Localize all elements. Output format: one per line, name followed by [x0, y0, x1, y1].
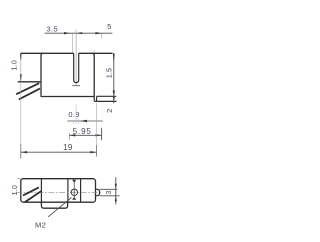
down arrow tip at y=101.4 — [113, 97, 115, 102]
1.0 dim lower arrow wedge — [20, 74, 22, 81]
svg-text:M2: M2 — [35, 221, 46, 230]
svg-text:0.9: 0.9 — [68, 110, 79, 119]
top edge extension (left) — [17, 178, 21, 180]
3 dimension (right of bottom view) — [100, 188, 118, 190]
terminal tab top edge — [97, 95, 117, 97]
under-bump — [41, 202, 67, 208]
slit centerline (vertical, light) — [75, 30, 77, 86]
dimension line 3.5 / 5 (top horizontal) — [45, 32, 113, 34]
1.0 dim upper arrow wedge — [20, 54, 22, 60]
svg-text:2: 2 — [105, 109, 114, 113]
0.9 dimension — [67, 120, 103, 122]
19 left arrow — [21, 151, 27, 153]
5.95 dimension — [69, 134, 101, 136]
svg-text:1.0: 1.0 — [10, 185, 19, 195]
down arrow tip at y=96.3 — [113, 91, 115, 97]
body left edge (rounded join to top edge) — [41, 53, 43, 96]
0.9 right arrow (outside, pointing left) — [80, 120, 87, 123]
svg-text:5: 5 — [107, 22, 111, 31]
extension tick below dim at x=101.6 — [101, 34, 103, 39]
centerline lower segment — [75, 105, 77, 124]
part top edge (right of slit) — [79, 52, 113, 54]
centerline (dash-dot) — [16, 191, 101, 193]
lead wires (bottom view diagonals) — [23, 187, 39, 195]
body bottom edge — [41, 96, 95, 98]
1.0 arrow wedge on left edge — [20, 180, 22, 185]
body right wall (rounded join to top edge) — [92, 53, 94, 96]
part top edge (left of slit) — [21, 52, 74, 54]
19 dimension — [20, 82, 22, 144]
1.5 arrow pair (thick wedge at top) — [113, 54, 115, 61]
arrow tip right (3.5 dim) — [64, 32, 70, 34]
M2 hole circle — [71, 189, 77, 195]
terminal pin under right wall — [94, 97, 116, 102]
flange underside — [18, 81, 42, 83]
5.95 right arrow — [96, 134, 102, 136]
arrow tip left (5 dim left end) — [76, 32, 82, 34]
svg-text:5.95: 5.95 — [73, 127, 92, 136]
19 right arrow — [90, 151, 96, 153]
extension line to slit left wall — [71, 34, 73, 53]
hole vertical mark with arrows — [73, 180, 75, 200]
tick above right wall — [93, 50, 95, 53]
slit (narrow U) — [74, 53, 79, 82]
5.95 left arrow — [69, 134, 75, 136]
right side bump (capsule) — [96, 189, 100, 195]
channel walls — [67, 179, 69, 203]
internal divider — [40, 179, 42, 203]
svg-text:1.0: 1.0 — [10, 60, 19, 70]
lead wires (two diagonals, lower-left) — [16, 83, 39, 94]
5.95 extension lines — [68, 133, 70, 140]
right dim line (1.5 and 2) — [113, 53, 115, 103]
arrow tip right (5 dim right end) — [95, 32, 101, 34]
svg-text:1.5: 1.5 — [104, 68, 113, 78]
svg-text:19: 19 — [63, 143, 73, 152]
svg-text:3: 3 — [104, 191, 113, 195]
optical axis tick below slit — [72, 85, 80, 87]
0.9 extension lines — [73, 121, 75, 124]
pin right edge — [96, 96, 98, 101]
flange left edge (light) — [20, 53, 22, 74]
bottom view outline — [21, 179, 96, 203]
svg-text:3.5: 3.5 — [46, 25, 57, 34]
M2 leader line — [48, 198, 71, 217]
